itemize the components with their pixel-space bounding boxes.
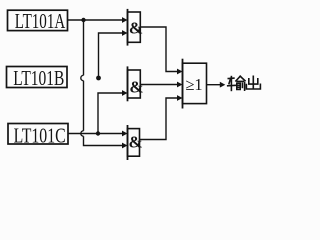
input block LT101A bbox=[8, 10, 68, 30]
svg-text:LT101A: LT101A bbox=[15, 9, 66, 33]
or-gate U4 box bbox=[183, 63, 207, 103]
wire C output to U3 top input bbox=[68, 133, 123, 135]
arrowhead U3 top input bbox=[122, 131, 128, 137]
arrowhead U2 bottom input bbox=[122, 90, 128, 96]
svg-text:&: & bbox=[129, 18, 143, 37]
wire B node to U1 bottom input bbox=[99, 33, 124, 78]
and-gate U3 extended input edge bbox=[127, 125, 129, 160]
and-gate U1 box bbox=[128, 12, 141, 42]
input block LT101B bbox=[7, 67, 68, 88]
junction node on C wire bbox=[96, 131, 100, 135]
arrowhead U4 bottom input bbox=[177, 95, 183, 101]
svg-text:≥1: ≥1 bbox=[185, 75, 202, 94]
and-gate U2 extended input edge bbox=[127, 66, 129, 101]
or-gate U4 extended input edge bbox=[182, 59, 184, 109]
input block LT101C bbox=[8, 124, 68, 145]
svg-text:&: & bbox=[129, 78, 143, 97]
junction node B to U1 bbox=[96, 76, 101, 81]
junction node on A wire bbox=[81, 18, 85, 22]
arrowhead U1 top input bbox=[122, 17, 128, 23]
wire U3 output to U4 bottom input bbox=[140, 98, 179, 140]
svg-text:LT101B: LT101B bbox=[13, 66, 64, 90]
arrowhead U3 bottom input bbox=[122, 143, 128, 149]
arrowhead U4 top input bbox=[177, 69, 183, 75]
arrowhead output bbox=[220, 82, 226, 88]
wire C branch to U2 bottom input bbox=[98, 93, 123, 134]
svg-text:LT101C: LT101C bbox=[14, 124, 66, 148]
label output chinese chu bbox=[246, 76, 260, 89]
arrowhead U4 middle input bbox=[177, 82, 183, 88]
wire A branch vertical middle segment bbox=[83, 81, 85, 131]
wire A branch vertical lower segment to corner bbox=[84, 136, 124, 145]
and-gate U1 extended input edge bbox=[127, 9, 129, 46]
arrowhead U1 bottom input bbox=[122, 30, 128, 36]
label output chinese shu bbox=[228, 76, 245, 90]
wire U4 output bbox=[207, 84, 221, 86]
wire hop over C line bbox=[81, 131, 84, 136]
wire U2 output to U4 middle input bbox=[140, 84, 178, 86]
wire U1 output to U4 top input bbox=[140, 27, 178, 72]
svg-text:&: & bbox=[129, 133, 143, 152]
wire hop over B line bbox=[81, 75, 84, 80]
and-gate U2 box bbox=[128, 70, 141, 98]
and-gate U3 box bbox=[128, 129, 140, 157]
wire A branch vertical upper segment bbox=[83, 20, 85, 75]
wire A output to U1 top input bbox=[68, 19, 124, 21]
